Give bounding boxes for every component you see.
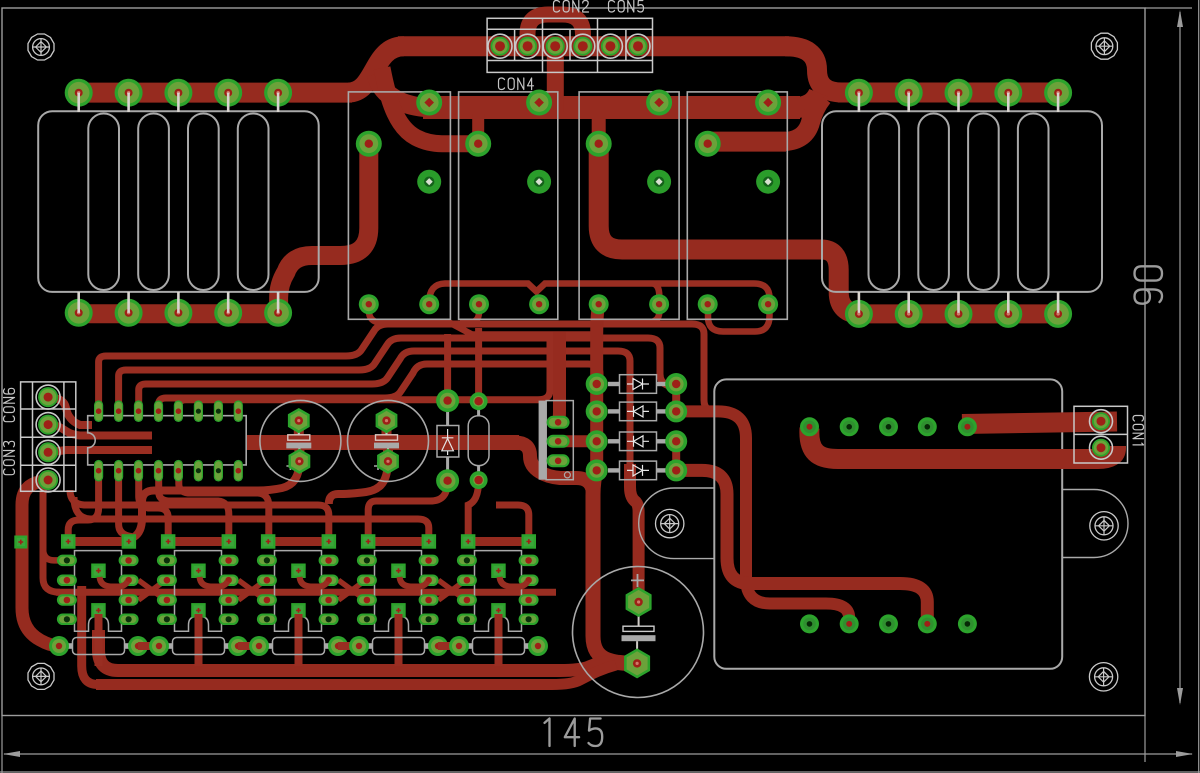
- wire coil trace C (K2 branch): [460, 302, 479, 323]
- wire IC bottom fan: [68, 471, 269, 538]
- wire coil trace A2 (K3 branch): [600, 284, 659, 323]
- wire relay K2 pin up stub: [472, 114, 484, 144]
- wire regulator input: [558, 332, 559, 422]
- wire bend up to terminal rail: [348, 46, 404, 92]
- mounting hole module bottom: [1089, 663, 1117, 691]
- dimension line 145 (bottom): [3, 719, 1193, 758]
- opto OK1 pads: [57, 534, 139, 625]
- resistor R3 pads: [149, 636, 248, 656]
- wire row A rail merge right: [795, 93, 819, 108]
- resistor R9 body: [466, 638, 532, 655]
- module RL5 outline: [639, 379, 1128, 668]
- wire left relay bank bottom rail: [79, 304, 279, 323]
- wire opto 1 emitter down: [95, 614, 103, 666]
- wire opto common rail: [56, 589, 556, 596]
- wire R3 to R5: [238, 642, 259, 650]
- resistor R11 body: [468, 408, 489, 473]
- via on left drop: [14, 536, 27, 549]
- wire C1 stubs: [294, 421, 305, 462]
- wire D5 bottom to opto4: [368, 481, 447, 536]
- wire opto 3 emitter down: [295, 614, 303, 666]
- resistor R7 body: [366, 638, 432, 655]
- wire opto 2 top link: [168, 537, 229, 546]
- wire bend down to right bank: [785, 46, 842, 92]
- wire R5 to R7: [338, 642, 359, 650]
- wire regulator out to diode column: [558, 435, 598, 447]
- opto OK1 outline: [75, 551, 122, 632]
- wire right relay bank top rail: [838, 83, 1058, 103]
- wire fork S to relay K2 pin: [382, 68, 478, 144]
- op-amp/driver U1 outline: [88, 416, 247, 465]
- diode D5 body: [437, 411, 459, 470]
- mounting hole module right: [1090, 512, 1118, 540]
- resistor R9 pads: [449, 636, 548, 656]
- wire C2 minus sweep: [329, 460, 388, 504]
- wire R11 up: [475, 328, 482, 400]
- regulator U2 pads: [547, 416, 570, 468]
- wire relay K3 pin up stub: [592, 118, 606, 144]
- wire relay K1 pin down then left to bank: [279, 144, 369, 313]
- mounting hole module left: [656, 509, 684, 537]
- wire diode column links: [672, 385, 680, 469]
- resistor R1 pads: [49, 636, 148, 656]
- diode D4 pads: [586, 459, 688, 481]
- wire bottom rail 2: [96, 665, 616, 685]
- capacitor C3 pads: [624, 587, 652, 678]
- wire opto 4 top link: [368, 537, 429, 546]
- mounting hole top-left: [28, 34, 54, 60]
- wire right relay bank bottom rail: [858, 304, 1058, 323]
- wire CON6 pin1 fan: [48, 397, 92, 425]
- label CON6: [4, 388, 15, 421]
- wire feed opto5 right: [496, 505, 529, 536]
- mounting hole top-right: [1091, 33, 1117, 59]
- wire terminal block rail: [398, 36, 789, 56]
- wire C1 C2 rail: [246, 435, 519, 450]
- wire opto 3 top link: [268, 537, 329, 546]
- module RL5 pads: [800, 417, 977, 633]
- relay row A pads: [416, 90, 781, 116]
- resistor R5 pads: [249, 636, 348, 656]
- diode D3 body: [608, 432, 668, 451]
- wire opto 5 internal: [500, 577, 528, 587]
- wire opto 4 emitter down: [395, 614, 403, 666]
- wire module feed P: [676, 411, 849, 624]
- connector CON6/CON3 outline: [21, 382, 76, 491]
- diode D5 pads: [436, 389, 459, 492]
- opto OK4 outline: [375, 551, 422, 632]
- regulator U2 body: [539, 401, 574, 480]
- diode D1 pads: [586, 373, 688, 395]
- relay row B pads: [356, 131, 721, 157]
- wire opto 2 emitter down: [195, 614, 203, 666]
- wire coil trace A (K1-K4 top): [429, 284, 769, 332]
- dimension line 90 (right): [1135, 10, 1184, 705]
- diode D2 body: [608, 402, 668, 421]
- wire CON6 pin2 to IC: [48, 425, 152, 436]
- mounting hole bottom-left: [28, 663, 54, 689]
- wire CON3 second drop: [43, 481, 60, 592]
- diode D4 body: [608, 461, 668, 480]
- capacitor C2 pads: [376, 408, 399, 474]
- opto OK4 pads: [357, 534, 439, 625]
- wire coil trace B (bottom row): [369, 302, 594, 335]
- wire D5 anode up: [444, 334, 451, 399]
- label CON2: [554, 1, 589, 13]
- wire module feed Q: [676, 470, 927, 624]
- capacitor C1 body: [260, 400, 341, 481]
- capacitor C2 body: [348, 400, 429, 481]
- wire row B rail merge: [782, 97, 823, 142]
- wire drop to opto1 pin1: [43, 548, 64, 560]
- wire arch CON2: [528, 15, 584, 51]
- opto OK3 outline: [275, 551, 322, 632]
- connector CON1 outline: [1074, 406, 1128, 463]
- opto OK5 pads: [457, 534, 539, 625]
- label CON5: [609, 1, 644, 13]
- resistor R11 pads: [470, 392, 488, 489]
- wire diode left column: [597, 302, 599, 472]
- wire CON1 rail 2: [809, 428, 1116, 459]
- wire caps rail elbow to C3: [515, 443, 593, 496]
- label CON4: [499, 78, 534, 90]
- wire diode column to cap C3 minus: [593, 468, 637, 663]
- wire C2 stubs: [387, 421, 389, 460]
- wire opto 1 internal: [100, 577, 128, 587]
- wire opto cross links: [139, 580, 466, 600]
- opto OK5 outline: [475, 551, 522, 632]
- resistor R1 body: [66, 638, 132, 655]
- label CON1: [1133, 416, 1144, 445]
- wire bottom rail 1: [99, 630, 638, 671]
- wire opto 2 internal: [200, 577, 228, 587]
- relay row C pads: [417, 170, 780, 194]
- opto OK3 pads: [257, 534, 339, 625]
- diode D2 pads: [586, 400, 688, 422]
- wire opto 1 top link: [68, 537, 129, 546]
- wire fork branch to row A rail: [376, 74, 425, 108]
- capacitor C3 body: [573, 567, 704, 698]
- relay bank RL1 outline: [38, 111, 319, 292]
- wire left relay bank top rail: [79, 83, 352, 103]
- wire R1 to R3: [138, 642, 159, 650]
- resistor R7 pads: [349, 636, 448, 656]
- wire opto 5 top link: [468, 537, 529, 546]
- wire relay K3 pin down to right bottom rail: [599, 144, 862, 314]
- wire feed opto3 right: [70, 490, 329, 536]
- wire CON3 pin1 to IC: [48, 450, 152, 452]
- resistor R3 body: [166, 638, 232, 655]
- capacitor C1 pads: [288, 408, 310, 474]
- label CON3: [4, 441, 15, 474]
- wire CON3 pin2 left drop: [22, 480, 58, 645]
- wire row A rail: [423, 96, 800, 119]
- wire IC staircase bundle: [99, 324, 716, 470]
- relay bank RL2 pads: [845, 79, 1072, 328]
- wire R11 bottom to opto5: [468, 480, 478, 536]
- wire opto 4 internal: [400, 577, 428, 587]
- wire elbow to cap C3 plus: [630, 464, 639, 596]
- relays K1-K4 outlines: [348, 92, 787, 319]
- op-amp/driver U1 pads: [94, 400, 243, 481]
- opto OK2 pads: [157, 534, 239, 625]
- wire R7 to R9: [438, 642, 459, 650]
- wire opto 5 emitter down: [495, 614, 503, 666]
- connector CON2/CON4/CON5 outline: [487, 18, 652, 72]
- relay row D pads: [359, 294, 778, 314]
- wire feed opto4 right: [74, 497, 429, 536]
- wire C1 minus sweep: [134, 461, 299, 537]
- connector CON2/CON4/CON5 pads: [488, 34, 650, 58]
- diode D1 body: [608, 375, 668, 394]
- wire opto 3 internal: [300, 577, 328, 587]
- wire row B right rail: [708, 132, 786, 152]
- connector CON1 pads: [1090, 410, 1113, 460]
- wire resistor R1 bypass: [82, 586, 98, 685]
- relay bank RL1 pads: [65, 79, 292, 327]
- resistor R5 body: [266, 638, 332, 655]
- opto OK2 outline: [175, 551, 222, 632]
- diode D3 pads: [586, 430, 688, 452]
- connector CON6/CON3 pads: [36, 385, 60, 492]
- relay bank RL2 outline: [822, 111, 1102, 292]
- wire CON2 pin3 down: [547, 46, 564, 112]
- wire CON1 rail 1: [962, 422, 1117, 425]
